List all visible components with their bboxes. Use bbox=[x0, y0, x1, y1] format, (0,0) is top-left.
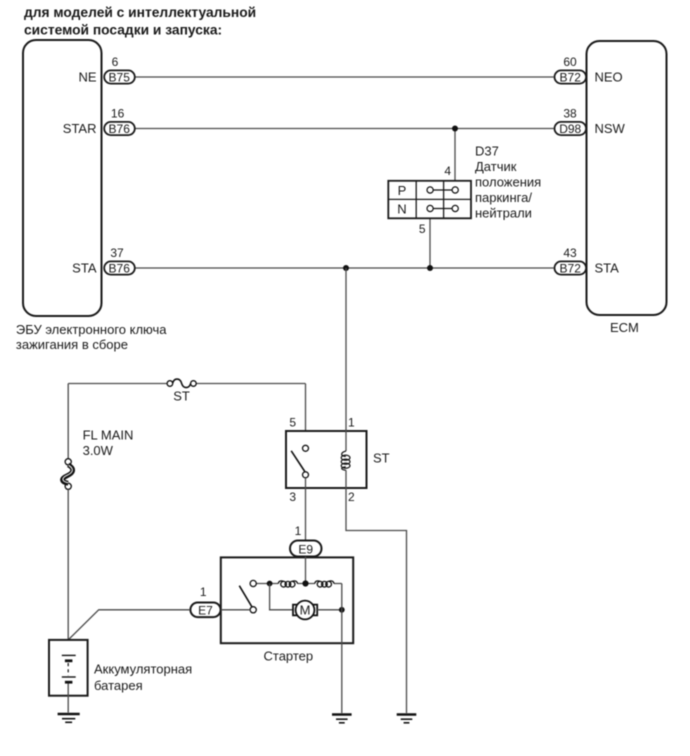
svg-text:37: 37 bbox=[110, 246, 124, 260]
svg-text:E9: E9 bbox=[298, 542, 313, 556]
svg-text:6: 6 bbox=[112, 55, 119, 69]
svg-text:3: 3 bbox=[289, 490, 296, 504]
connector E9 bbox=[290, 541, 322, 557]
svg-text:5: 5 bbox=[419, 222, 426, 236]
starter coil 2 bbox=[315, 581, 334, 587]
connector B72 (STA) bbox=[555, 261, 587, 275]
junction starter coil mid (E9) bbox=[302, 580, 308, 586]
svg-text:для моделей с интеллектуальной: для моделей с интеллектуальной bbox=[24, 5, 256, 20]
svg-text:Датчик: Датчик bbox=[475, 159, 517, 174]
svg-text:3.0W: 3.0W bbox=[83, 443, 114, 458]
wire motor to right rail bbox=[317, 609, 342, 611]
svg-text:Аккумуляторная: Аккумуляторная bbox=[94, 662, 192, 677]
svg-text:1: 1 bbox=[200, 585, 207, 599]
svg-text:STA: STA bbox=[72, 261, 97, 276]
svg-text:43: 43 bbox=[563, 246, 577, 260]
wire E7 to battery bbox=[68, 610, 190, 640]
starter internal top wire bbox=[253, 583, 278, 585]
svg-text:B72: B72 bbox=[560, 71, 582, 85]
starter motor branch wire bbox=[270, 584, 294, 610]
svg-text:ST: ST bbox=[373, 451, 390, 466]
connector B76 (STAR) bbox=[104, 122, 135, 136]
starter switch bbox=[239, 580, 256, 613]
svg-text:D98: D98 bbox=[559, 122, 581, 136]
svg-text:D37: D37 bbox=[475, 144, 499, 159]
svg-text:1: 1 bbox=[348, 416, 355, 430]
fuse ST bbox=[167, 379, 196, 403]
junction NSW/D37 bbox=[452, 126, 458, 132]
svg-text:B76: B76 bbox=[109, 122, 131, 136]
svg-text:NSW: NSW bbox=[595, 121, 626, 136]
connector B72 (NEO) bbox=[555, 70, 587, 84]
fusible link FL MAIN bbox=[63, 428, 134, 490]
svg-text:STA: STA bbox=[595, 261, 620, 276]
svg-text:STAR: STAR bbox=[63, 121, 97, 136]
wire relay pin5 drop bbox=[305, 384, 307, 446]
svg-text:положения: положения bbox=[475, 175, 541, 190]
svg-text:B76: B76 bbox=[109, 262, 131, 276]
svg-text:E7: E7 bbox=[198, 604, 213, 618]
svg-text:P: P bbox=[398, 183, 407, 198]
ECU smart key box U1 bbox=[16, 40, 167, 352]
svg-text:B72: B72 bbox=[560, 262, 582, 276]
svg-text:ЭБУ электронного ключа: ЭБУ электронного ключа bbox=[16, 322, 167, 337]
svg-text:1: 1 bbox=[295, 524, 302, 538]
junction motor right bbox=[339, 607, 345, 613]
svg-text:зажигания в сборе: зажигания в сборе bbox=[16, 337, 128, 352]
svg-text:батарея: батарея bbox=[94, 678, 143, 693]
junction STA/D37 bbox=[427, 265, 433, 271]
starter box bbox=[221, 557, 353, 663]
wire relay pin3 to E9 bbox=[305, 478, 307, 541]
battery symbol bbox=[62, 655, 76, 682]
ECM box bbox=[587, 41, 667, 335]
relay ST box bbox=[286, 431, 390, 488]
svg-text:16: 16 bbox=[111, 107, 125, 121]
connector B76 (STA) bbox=[104, 261, 135, 275]
pin NE label bbox=[63, 70, 626, 276]
wire left battery feed vertical bbox=[67, 384, 69, 460]
ground battery bbox=[58, 714, 80, 722]
connector E7 bbox=[190, 603, 220, 618]
park/neutral position switch D37 bbox=[388, 181, 471, 219]
svg-text:5: 5 bbox=[289, 416, 296, 430]
starter right rail to ground bbox=[341, 584, 343, 714]
svg-text:FL MAIN: FL MAIN bbox=[83, 428, 134, 443]
wire relay pin1 from STA bbox=[345, 268, 347, 451]
wire battery vertical lower bbox=[67, 489, 69, 656]
ground starter bbox=[332, 715, 352, 723]
wire STA-STA bbox=[136, 267, 554, 269]
svg-text:2: 2 bbox=[348, 490, 355, 504]
svg-text:ECM: ECM bbox=[610, 320, 639, 335]
svg-text:Стартер: Стартер bbox=[264, 649, 314, 664]
wire battery to ground bbox=[67, 684, 69, 713]
svg-text:60: 60 bbox=[563, 55, 577, 69]
svg-text:4: 4 bbox=[444, 164, 451, 178]
pin numbers left bbox=[110, 55, 577, 260]
wire STAR-NSW bbox=[136, 128, 554, 130]
wire relay pin2 to ground bbox=[346, 470, 407, 713]
wire E7 to switch bbox=[221, 609, 250, 611]
relay coil bbox=[341, 451, 350, 470]
wire E9 into starter bbox=[305, 557, 307, 584]
wire NE-NEO bbox=[136, 76, 554, 78]
svg-text:38: 38 bbox=[563, 107, 577, 121]
svg-text:B75: B75 bbox=[109, 71, 131, 85]
svg-text:ST: ST bbox=[173, 388, 190, 403]
ground relay bbox=[397, 715, 417, 723]
junction starter coil left bbox=[267, 581, 273, 587]
wire D37 pin5 drop bbox=[429, 218, 431, 268]
D37 name label bbox=[475, 144, 541, 221]
starter coil 1 bbox=[278, 581, 297, 587]
relay switch contact bbox=[291, 445, 308, 478]
title note bbox=[24, 5, 256, 37]
svg-text:NEO: NEO bbox=[595, 70, 623, 85]
wire D37 pin4 drop bbox=[454, 129, 456, 182]
wire ST fuse horizontal bbox=[68, 383, 167, 385]
svg-text:нейтрали: нейтрали bbox=[475, 206, 532, 221]
battery box bbox=[49, 640, 192, 696]
svg-text:паркинга/: паркинга/ bbox=[475, 190, 532, 205]
connector B75 bbox=[104, 70, 135, 84]
svg-text:системой посадки и запуска:: системой посадки и запуска: bbox=[24, 22, 222, 37]
svg-text:M: M bbox=[300, 603, 311, 618]
connector D98 (NSW) bbox=[555, 122, 587, 136]
svg-text:N: N bbox=[397, 202, 406, 217]
svg-text:NE: NE bbox=[78, 70, 96, 85]
junction STA/relay bbox=[343, 265, 349, 271]
relay pin labels bbox=[289, 416, 355, 505]
motor M bbox=[293, 601, 317, 620]
